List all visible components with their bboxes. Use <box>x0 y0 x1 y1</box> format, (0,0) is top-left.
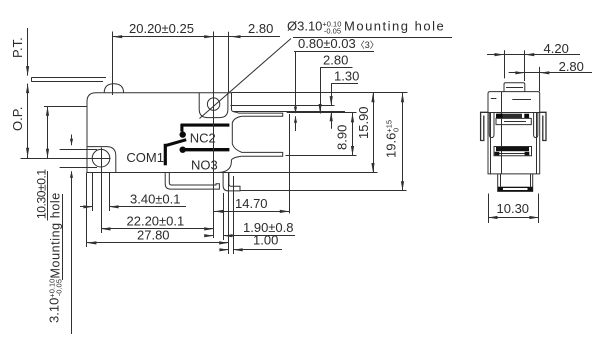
svg-text:3.10+0.10-0.05: 3.10+0.10-0.05 <box>47 279 64 323</box>
svg-text:15.90: 15.90 <box>356 106 371 139</box>
svg-text:2.80: 2.80 <box>248 21 273 36</box>
svg-text:20.20±0.25: 20.20±0.25 <box>129 21 194 36</box>
svg-text:1.00: 1.00 <box>253 232 278 247</box>
svg-text:8.90: 8.90 <box>335 125 350 150</box>
svg-text:10.30±0.1: 10.30±0.1 <box>34 169 48 219</box>
svg-text:Mounting hole: Mounting hole <box>49 192 63 278</box>
svg-text:4.20: 4.20 <box>544 41 569 56</box>
svg-text:NC2: NC2 <box>190 130 216 145</box>
svg-text:P.T.: P.T. <box>10 37 25 58</box>
svg-text:27.80: 27.80 <box>137 227 170 242</box>
svg-text:2.80: 2.80 <box>323 53 348 68</box>
svg-text:14.70: 14.70 <box>235 196 268 211</box>
svg-text:10.30: 10.30 <box>497 201 530 216</box>
svg-text:Ø3.10+0.10-0.05Mounting hole: Ø3.10+0.10-0.05Mounting hole <box>287 19 445 36</box>
svg-text:2.80: 2.80 <box>559 59 584 74</box>
svg-text:3.40±0.1: 3.40±0.1 <box>130 192 181 207</box>
svg-text:22.20±0.1: 22.20±0.1 <box>127 213 185 228</box>
svg-text:COM1: COM1 <box>126 150 164 165</box>
svg-text:1.30: 1.30 <box>334 69 359 84</box>
svg-text:O.P.: O.P. <box>10 107 25 131</box>
